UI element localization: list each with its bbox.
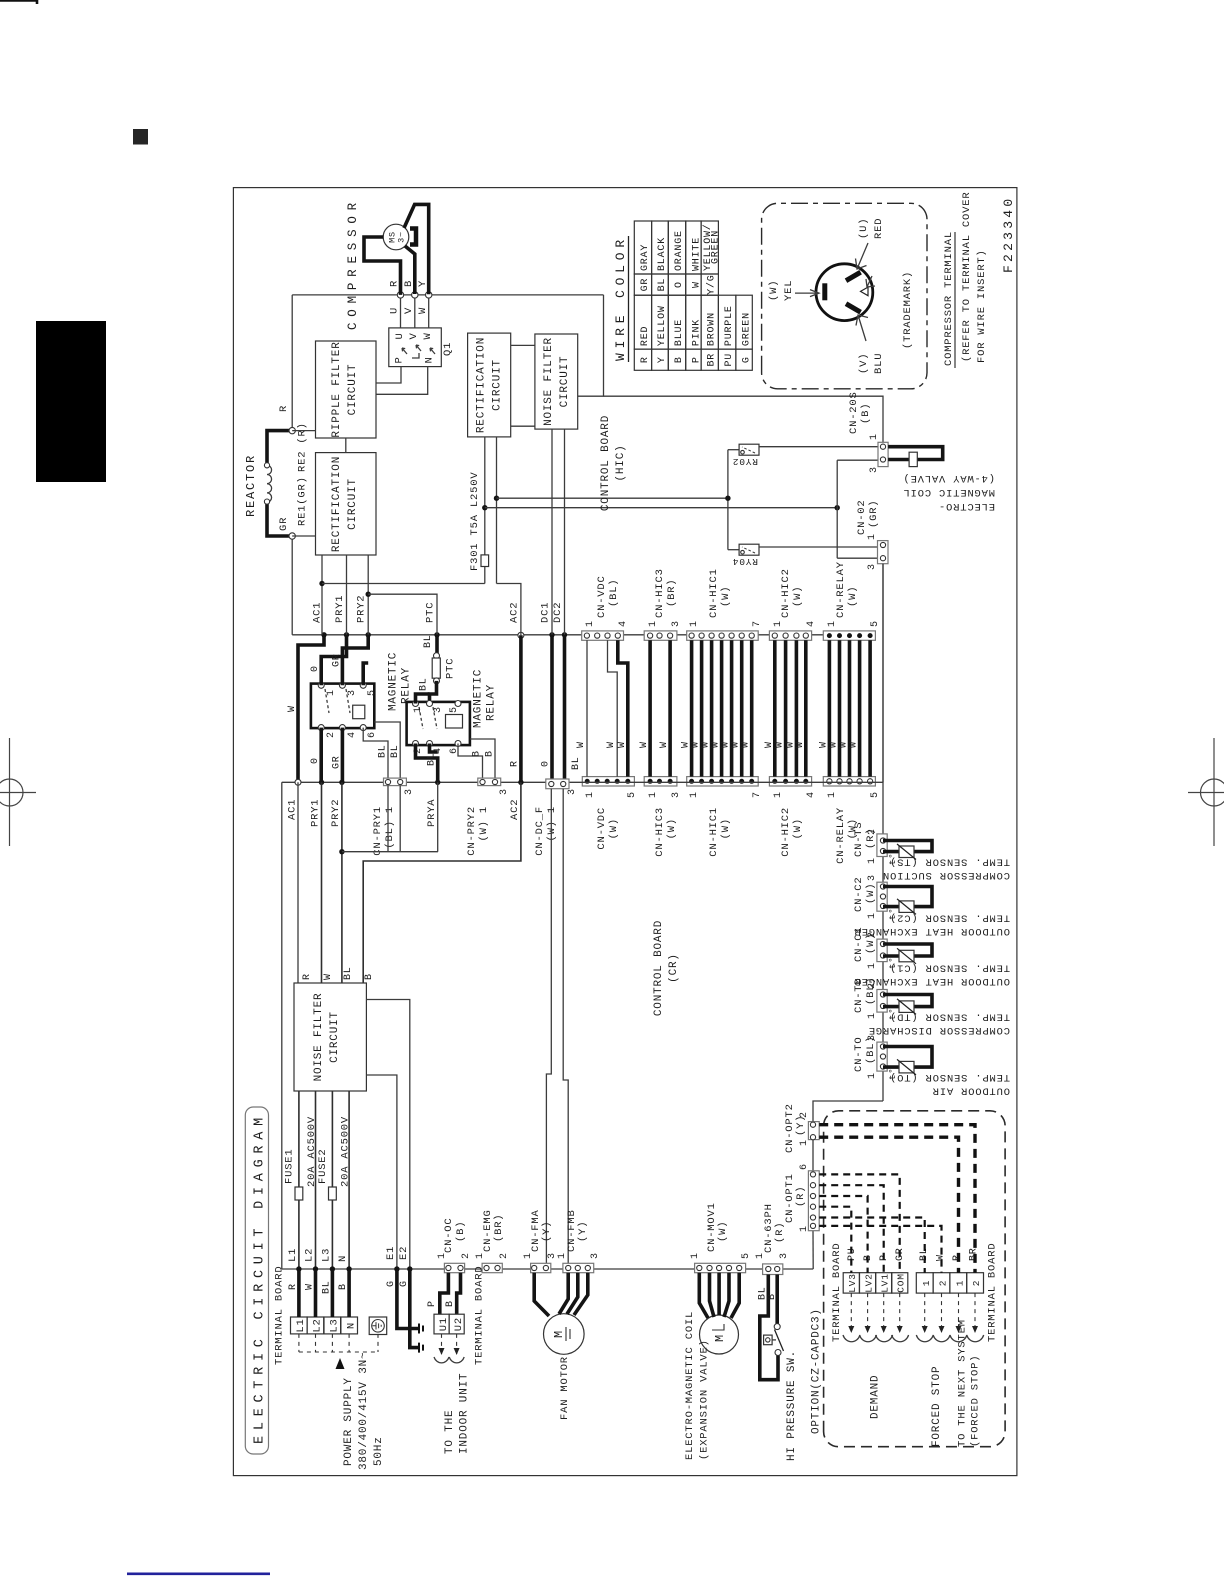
connector CN-TO (BL) + temp sensor TO (877, 1042, 887, 1071)
wire CN-02 to bus2 (882, 564, 884, 783)
relay MR2 box (407, 702, 470, 745)
svg-text:Y/G: Y/G (706, 274, 718, 294)
svg-text:FUSE2: FUSE2 (317, 1148, 329, 1184)
option terminal board FORCED (916, 1273, 933, 1293)
ripple filter circuit box (316, 341, 377, 438)
connector CN-PRY1 (BL) (384, 778, 407, 786)
wire ripple-rectification link (345, 438, 347, 453)
svg-text:GR: GR (332, 755, 343, 769)
node tee AC1-F301 (319, 581, 324, 586)
svg-text:CN-TO: CN-TO (853, 1036, 865, 1072)
svg-text:PRYA: PRYA (426, 799, 438, 827)
svg-text:PRY1: PRY1 (310, 799, 322, 827)
svg-text:AC1: AC1 (287, 799, 299, 820)
svg-text:AC2: AC2 (509, 799, 521, 820)
wire Q1 V to terminal (414, 295, 416, 328)
thermistor TS loop (883, 841, 932, 852)
svg-text:(W): (W) (720, 586, 732, 607)
dashed wire OPT2 pin2 to next system 2 (819, 1125, 975, 1273)
svg-text:ELECTRO-: ELECTRO- (938, 500, 995, 512)
wire HIC3-3 thick (668, 640, 672, 776)
svg-text:TEMP. SENSOR (TS): TEMP. SENSOR (TS) (889, 856, 1010, 868)
wire CN-OPT2 to CN-OPT1 (812, 1140, 814, 1171)
wire MR1 pin6 to CN-PRY1 pin1 (363, 728, 388, 778)
reactor terminal small top1 (264, 463, 269, 468)
svg-text:RECTIFICATION: RECTIFICATION (331, 456, 343, 552)
svg-text:CN-VDC: CN-VDC (596, 575, 608, 618)
connector CN-HIC1 (W) top (687, 631, 759, 640)
svg-text:1: 1 (690, 1252, 701, 1259)
connector CN-TS (R) + temp sensor TS (877, 834, 887, 857)
wire MR2 pin1 stub (416, 694, 430, 704)
svg-text:COMPRESSOR TERMINAL: COMPRESSOR TERMINAL (943, 231, 955, 366)
svg-text:TEMP. SENSOR (C1): TEMP. SENSOR (C1) (889, 962, 1010, 974)
svg-text:RED: RED (873, 218, 885, 239)
wire DC_F pin3 to CN-FMB (563, 789, 568, 1263)
svg-text:COMPRESSOR SUCTION: COMPRESSOR SUCTION (882, 869, 1010, 881)
svg-text:CN-PRY1: CN-PRY1 (372, 806, 384, 856)
svg-text:1: 1 (827, 791, 838, 798)
svg-text:CN-OC: CN-OC (443, 1217, 455, 1253)
node lineA branch (725, 495, 730, 500)
svg-text:0: 0 (541, 760, 552, 767)
wire AC2 bus1 to bus2 (519, 635, 523, 782)
svg-text:W: W (849, 741, 860, 748)
wire MR1 coil to CN-PRY1 pin3 (374, 722, 400, 778)
wire AC2 jog to bus1 (497, 584, 521, 636)
svg-text:CIRCUIT: CIRCUIT (559, 356, 571, 408)
fan motor circle (544, 1314, 585, 1355)
wire CN-OC pin2 to U2 (457, 1273, 461, 1315)
svg-text:CN-HIC3: CN-HIC3 (654, 807, 666, 857)
svg-text:3: 3 (779, 1252, 790, 1259)
Q1 inner igbt symbols (402, 345, 435, 358)
svg-text:TO THE NEXT SYSTEM: TO THE NEXT SYSTEM (957, 1319, 969, 1447)
node tee lineA (494, 495, 499, 500)
wire GR circle to rectification box (292, 535, 315, 537)
brackets demand group (843, 1335, 860, 1342)
svg-text:380/400/415V 3N~: 380/400/415V 3N~ (358, 1352, 370, 1470)
left registration mark (0, 738, 36, 846)
svg-text:RE1(GR): RE1(GR) (297, 476, 309, 526)
svg-text:B: B (767, 1293, 778, 1300)
connector CN-TD (BL) + temp sensor TD (877, 990, 887, 1013)
title box ELECTRIC CIRCUIT DIAGRAM (245, 1107, 268, 1454)
svg-text:(FORCED STOP): (FORCED STOP) (970, 1355, 982, 1447)
right registration mark (1188, 738, 1224, 846)
svg-text:TO THE: TO THE (444, 1410, 456, 1454)
svg-text:3: 3 (347, 689, 358, 696)
svg-text:U2: U2 (453, 1317, 465, 1331)
wire MR2 pin4 to PRYA (430, 744, 438, 753)
svg-text:R: R (640, 356, 651, 363)
svg-text:YEL: YEL (783, 280, 795, 301)
reactor terminal R (289, 427, 295, 433)
wire VDC1 (586, 640, 588, 776)
svg-text:U: U (394, 332, 406, 339)
option terminal board DEMAND (843, 1273, 859, 1293)
svg-text:(Y): (Y) (541, 1221, 553, 1242)
dashed field wiring U1 U2 (441, 1334, 443, 1354)
svg-text:(EXPANSION VALVE): (EXPANSION VALVE) (699, 1339, 711, 1460)
svg-text:BL: BL (378, 744, 389, 758)
wire reactor link GR-bus1 (291, 536, 293, 635)
svg-text:1: 1 (689, 791, 700, 798)
svg-text:3: 3 (404, 788, 415, 795)
svg-text:BLACK: BLACK (657, 237, 668, 271)
svg-text:CN-DC_F: CN-DC_F (534, 806, 546, 856)
wire R circle to ripple box (292, 430, 315, 432)
svg-text:TERMINAL BOARD: TERMINAL BOARD (474, 1266, 486, 1365)
node lineB branch (835, 505, 840, 510)
connector CN-C2 (W) + temp sensor C2 (877, 882, 887, 911)
svg-text:PTC: PTC (445, 658, 457, 679)
svg-text:CN-TS: CN-TS (853, 821, 865, 857)
svg-text:CN-TD: CN-TD (853, 977, 865, 1013)
svg-text:W: W (422, 332, 434, 339)
inverter Q1 box (389, 328, 442, 367)
svg-text:V: V (408, 332, 420, 339)
svg-text:1: 1 (869, 433, 880, 440)
svg-text:GR: GR (278, 517, 290, 531)
connector CN-HIC1 (W) bottom (687, 777, 759, 786)
svg-text:FAN MOTOR: FAN MOTOR (559, 1356, 571, 1420)
svg-text:MAGNETIC: MAGNETIC (473, 669, 485, 728)
svg-text:2: 2 (867, 982, 878, 989)
terminal board U1 U2 (434, 1314, 449, 1334)
svg-text:TERMINAL BOARD: TERMINAL BOARD (831, 1243, 843, 1342)
wire compressor W thick (404, 204, 429, 294)
black rectangle blob (36, 321, 106, 482)
svg-text:M: M (713, 1334, 727, 1342)
svg-text:3: 3 (867, 874, 878, 881)
node N (346, 1266, 351, 1271)
svg-text:(R): (R) (774, 1222, 786, 1243)
svg-text:1: 1 (921, 1280, 932, 1287)
noise filter circuit main box (294, 983, 366, 1091)
svg-text:PURPLE: PURPLE (724, 305, 735, 346)
wire MR2 pin6 to CN-PRY2 pin1 (458, 744, 483, 779)
svg-text:CIRCUIT: CIRCUIT (347, 364, 359, 416)
rectification circuit HIC box (468, 333, 511, 437)
svg-text:CN-RELAY: CN-RELAY (835, 561, 847, 618)
svg-text:W: W (795, 741, 806, 748)
svg-text:Q1: Q1 (442, 342, 454, 356)
page corner tick (0, 1, 37, 5)
svg-text:Y: Y (657, 356, 668, 363)
wire Q1 P to ripple (376, 367, 401, 383)
svg-text:4: 4 (806, 791, 817, 798)
connector CN-OPT1 (R) (808, 1171, 819, 1231)
connector CN-OC (B) (444, 1263, 464, 1272)
wire AC1 bus1 to bus2 thick (298, 635, 324, 780)
svg-text:1: 1 (773, 620, 784, 627)
node E2 (407, 1266, 412, 1271)
svg-text:5: 5 (741, 1252, 752, 1259)
svg-text:2: 2 (971, 1280, 982, 1287)
wire color table (634, 221, 752, 370)
relay MR2 coil (446, 715, 463, 729)
svg-text:MAGNETIC: MAGNETIC (388, 652, 400, 711)
svg-text:(V): (V) (858, 353, 870, 374)
relay MR2 blades (419, 707, 437, 729)
node AC1 on bus1 (321, 632, 326, 637)
svg-text:CN-RELAY: CN-RELAY (835, 807, 847, 864)
svg-text:1: 1 (557, 1252, 568, 1259)
svg-text:L2: L2 (312, 1318, 324, 1332)
relay MR1 box (311, 684, 374, 729)
svg-text:G: G (742, 356, 753, 363)
wire E1 stub (366, 1075, 397, 1269)
svg-text:DC2: DC2 (552, 602, 564, 623)
dashed wire OPT1 pin4 to LV2 (819, 1196, 867, 1273)
wire MR2 coil to CN-PRY2 pin3 (470, 739, 495, 778)
node AC2 on bus1 (518, 632, 524, 638)
svg-text:5: 5 (870, 791, 881, 798)
svg-text:COMPRESSOR: COMPRESSOR (346, 202, 360, 330)
svg-text:OPTION(CZ-CAPDC3): OPTION(CZ-CAPDC3) (811, 1308, 823, 1434)
svg-text:(W): (W) (768, 280, 780, 301)
wire HIC3-1 thick (648, 640, 652, 776)
svg-text:W: W (323, 973, 334, 980)
svg-text:(Y): (Y) (795, 1115, 807, 1136)
node E1 (394, 1266, 399, 1271)
dashed wire OPT1 pin5 to LV1 (819, 1185, 884, 1273)
wire E2 ground (410, 1269, 419, 1348)
svg-text:3~: 3~ (397, 231, 407, 243)
svg-text:3: 3 (869, 466, 880, 473)
svg-text:HI PRESSURE SW.: HI PRESSURE SW. (786, 1350, 798, 1461)
svg-text:W: W (764, 741, 775, 748)
svg-text:BLUE: BLUE (674, 319, 685, 346)
svg-text:(CR): (CR) (668, 953, 680, 983)
wire DC1 bus1 to bus2 thick (550, 635, 554, 789)
wire PRY2 to MR1 pin3 (342, 635, 368, 686)
svg-text:GREEN: GREEN (711, 230, 722, 264)
node PRYA bus2 (435, 780, 440, 785)
svg-text:1: 1 (523, 1252, 534, 1259)
wire AC1 to noise filter (297, 782, 299, 983)
svg-text:BL: BL (419, 677, 430, 691)
wire reactor link busA-R (291, 295, 293, 431)
svg-text:0: 0 (310, 757, 321, 764)
dashed wire OPT2 pin1 to next system 1 (819, 1137, 958, 1273)
wire noise filter HIC to CN-20S feed (604, 396, 884, 442)
svg-text:CIRCUIT: CIRCUIT (329, 1011, 341, 1063)
svg-text:(BL) 1: (BL) 1 (384, 806, 396, 849)
wire RY02 stub (728, 449, 739, 451)
svg-text:U1: U1 (438, 1317, 450, 1331)
wire N to terminal (347, 1269, 351, 1317)
svg-text:NOISE FILTER: NOISE FILTER (313, 993, 325, 1082)
svg-text:WIRE COLOR: WIRE COLOR (613, 239, 628, 361)
wire HIC top feed line (busA) (292, 294, 603, 296)
node PRY2 tee (339, 849, 344, 854)
svg-text:BLU: BLU (873, 353, 885, 374)
svg-text:W: W (576, 741, 587, 748)
svg-text:50Hz: 50Hz (373, 1436, 385, 1466)
svg-text:R: R (278, 405, 290, 412)
relay RY02 (739, 444, 759, 455)
wire rectification AC1 leg (321, 555, 323, 635)
wire CN-OPT1 to bus3 (812, 1231, 814, 1269)
svg-text:R: R (302, 973, 313, 980)
svg-text:BROWN: BROWN (707, 312, 718, 346)
svg-text:(BL): (BL) (865, 977, 877, 1005)
svg-text:TEMP. SENSOR (TD): TEMP. SENSOR (TD) (889, 1011, 1010, 1023)
svg-text:1: 1 (585, 791, 596, 798)
wire AC1 tee to F301 (322, 583, 485, 585)
svg-text:(W): (W) (792, 586, 804, 607)
node AC1 bus2 (295, 779, 301, 785)
node PRY1 on bus1 (344, 632, 349, 637)
node terminal U (397, 292, 403, 298)
dashed wire forced stop 1 (819, 1218, 925, 1273)
pressure switch blade (775, 1330, 784, 1352)
svg-text:LV3: LV3 (847, 1273, 858, 1293)
svg-text:INDOOR UNIT: INDOOR UNIT (459, 1373, 471, 1454)
svg-text:3: 3 (867, 1034, 878, 1041)
svg-text:G: G (399, 1280, 410, 1287)
svg-text:1: 1 (799, 1139, 810, 1146)
wire Q1 N to ripple (376, 367, 428, 395)
svg-text:PU: PU (724, 353, 735, 367)
node AC2 bus2 (518, 780, 523, 785)
svg-text:7: 7 (752, 620, 763, 627)
svg-text:4: 4 (618, 620, 629, 627)
svg-text:5: 5 (627, 791, 638, 798)
svg-text:CN-02: CN-02 (856, 499, 868, 535)
dashed wire OPT1 pin6 to COM (819, 1174, 900, 1272)
node DC1 on bus1 (549, 632, 554, 637)
svg-text:BL: BL (322, 1280, 333, 1294)
connector CN-RELAY (W) top (823, 631, 875, 640)
wire RY02 to CN-20S pin1 (759, 446, 878, 448)
svg-text:(W): (W) (865, 883, 877, 904)
svg-text:PRY2: PRY2 (356, 595, 368, 623)
svg-text:5: 5 (870, 620, 881, 627)
svg-text:P: P (394, 356, 406, 363)
wire E1 ground (397, 1269, 419, 1329)
svg-text:CONTROL BOARD: CONTROL BOARD (600, 415, 612, 511)
svg-text:RIPPLE FILTER: RIPPLE FILTER (331, 341, 343, 437)
wire rectification PRY1 leg (346, 555, 348, 635)
svg-text:O: O (674, 281, 685, 288)
diagram border frame (233, 188, 1017, 1476)
svg-text:(U): (U) (858, 218, 870, 239)
svg-text:(BL): (BL) (608, 579, 620, 607)
svg-text:1: 1 (475, 1252, 486, 1259)
svg-text:DEMAND: DEMAND (870, 1375, 882, 1419)
svg-text:L1: L1 (295, 1318, 307, 1332)
connector CN-C1 (W) + temp sensor C1 (877, 939, 887, 962)
thermistor TD loop (883, 995, 932, 1007)
svg-text:F223340: F223340 (1001, 198, 1016, 273)
brackets forced group (916, 1335, 933, 1342)
wire bus2 (CR board top edge) (282, 781, 883, 783)
reactor terminal GR (289, 533, 295, 539)
svg-text:CIRCUIT: CIRCUIT (492, 359, 504, 411)
svg-text:1: 1 (867, 857, 878, 864)
power supply dashed links (299, 1334, 378, 1352)
wire DC_F pin1 to CN-FMA (546, 789, 551, 1263)
svg-text:1: 1 (867, 1012, 878, 1019)
dashed wire OPT1 pin3 to LV3 (819, 1207, 851, 1273)
wire CN-PRY1 pin1 stub (387, 786, 389, 852)
wire DC2 bus1 to bus2 thick (563, 635, 567, 789)
svg-text:WHITE: WHITE (691, 237, 702, 271)
black square marker (133, 129, 148, 145)
svg-text:(W): (W) (608, 818, 620, 839)
wire noise filter L2 (315, 1091, 317, 1269)
svg-text:CN-HIC2: CN-HIC2 (780, 807, 792, 857)
wire MR1 pin4 to bus2 (341, 728, 345, 783)
svg-text:N: N (424, 356, 436, 363)
wire PRY1 to noise filter (321, 782, 323, 983)
node DC2 on bus1 (562, 632, 567, 637)
svg-text:BL: BL (571, 756, 582, 770)
svg-text:CN-HIC1: CN-HIC1 (708, 807, 720, 857)
svg-text:NOISE FILTER: NOISE FILTER (543, 337, 555, 426)
node L1 (296, 1266, 301, 1271)
svg-text:W: W (417, 307, 429, 314)
svg-text:1: 1 (867, 1072, 878, 1079)
connector CN-FMB (Y) (563, 1263, 594, 1272)
node PRY2 on bus1 (366, 632, 371, 637)
svg-text:CN-VDC: CN-VDC (596, 807, 608, 850)
svg-text:RE2 (R): RE2 (R) (297, 422, 309, 472)
svg-text:RED: RED (640, 326, 651, 346)
arrow RED (856, 243, 869, 269)
svg-text:L3: L3 (321, 1248, 333, 1262)
svg-text:2: 2 (461, 1252, 472, 1259)
dashed wire forced stop 2 (819, 1226, 941, 1273)
svg-text:FOR WIRE INSERT): FOR WIRE INSERT) (976, 249, 988, 363)
svg-text:3: 3 (590, 1252, 601, 1259)
svg-text:W: W (617, 741, 628, 748)
wire RY04 to CN-02 pin1 (759, 545, 880, 547)
svg-text:GRAY: GRAY (640, 244, 651, 271)
fuse FUSE1 (295, 1187, 303, 1200)
dashed field wires option cells (850, 1293, 852, 1332)
wire PRYA drop (437, 782, 439, 851)
wires fan motor (534, 1273, 549, 1316)
rectification circuit box (316, 453, 377, 555)
wire rect-noise link2 (511, 425, 535, 427)
svg-text:(4-WAY VALVE): (4-WAY VALVE) (903, 472, 995, 484)
wire compressor U thick (364, 237, 401, 295)
svg-text:CN-HIC1: CN-HIC1 (708, 568, 720, 618)
wire busA corner to noise filter feed (578, 295, 604, 396)
node PTC on bus1 (434, 632, 439, 637)
connector CN-VDC (BL) top (582, 631, 624, 640)
reactor terminal small top2 (264, 499, 269, 504)
wire bus3 (CR board bottom edge) (282, 1268, 813, 1270)
wire lineB CN-20S feed (485, 507, 837, 509)
svg-text:1: 1 (326, 689, 337, 696)
wire rect HIC AC2 leg (496, 437, 498, 584)
svg-text:TEMP. SENSOR (C2): TEMP. SENSOR (C2) (889, 912, 1010, 924)
svg-text:(Y): (Y) (577, 1221, 589, 1242)
svg-text:2: 2 (326, 731, 337, 738)
arrow YEL (795, 290, 819, 297)
wire sensor feed line (882, 564, 884, 1101)
wires CN-RELAY thick (828, 640, 832, 776)
svg-text:G: G (386, 1280, 397, 1287)
svg-text:(R): (R) (795, 1186, 807, 1207)
svg-text:PINK: PINK (691, 319, 702, 346)
wire VDC4-5 thick (618, 640, 628, 776)
